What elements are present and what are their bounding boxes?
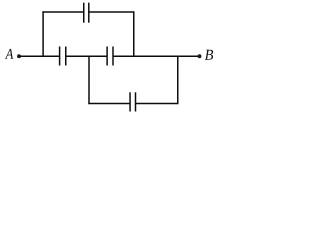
capacitor C1 right plate (65, 47, 67, 66)
wire top-branch left horizontal (42, 11, 83, 13)
wire C1 to capacitor C2 (66, 55, 107, 57)
capacitor C1 left plate (59, 47, 61, 66)
capacitor C4 right plate (135, 92, 137, 111)
label B (205, 50, 213, 60)
wire bottom-branch left vertical (88, 56, 90, 104)
node A terminal dot (17, 54, 21, 58)
label A (5, 49, 13, 59)
wire top-branch right horizontal (89, 11, 135, 13)
capacitor C2 right plate (112, 47, 114, 66)
wire C2 to node B (113, 55, 200, 57)
wire top-branch right vertical (133, 11, 135, 56)
wire bottom-branch left horizontal (88, 102, 130, 104)
wire top-branch left vertical (42, 11, 44, 56)
capacitor C3 right plate (88, 3, 90, 23)
capacitor C2 left plate (106, 47, 108, 66)
node B terminal dot (198, 54, 202, 58)
capacitor C4 left plate (129, 92, 131, 111)
wire A to capacitor C1 (19, 55, 60, 57)
wire bottom-branch right horizontal (136, 102, 179, 104)
wire bottom-branch right vertical (177, 56, 179, 104)
capacitor C3 left plate (83, 3, 85, 23)
